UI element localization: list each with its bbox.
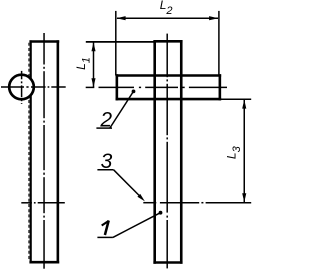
svg-text:2: 2 bbox=[99, 109, 112, 132]
svg-text:3: 3 bbox=[101, 150, 113, 173]
